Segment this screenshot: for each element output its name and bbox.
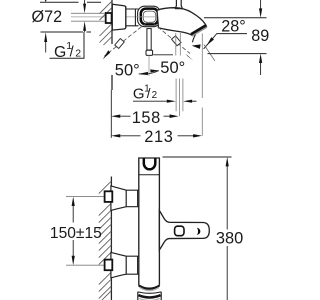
- handle rim (thick): [141, 9, 158, 25]
- wall line (side view): [111, 0, 113, 90]
- spout outlet extension lines (upper): [176, 33, 181, 56]
- dimension 380 line upper: [226, 157, 229, 166]
- svg-text:/: /: [147, 86, 151, 101]
- label G1/2 box: [50, 32, 85, 58]
- lever hole: [175, 226, 184, 236]
- body seam line: [139, 174, 160, 176]
- 150±15 upper extension line: [66, 196, 105, 198]
- spout outlet extension lines (lower): [176, 79, 183, 117]
- dimension G1/2 upper arrow: [84, 0, 86, 5]
- lever end cap: [146, 50, 153, 55]
- G1/2 wall nipple: [106, 13, 112, 23]
- phantom lever line right (50° tilt): [153, 23, 190, 54]
- handle inner face: [143, 11, 156, 22]
- dimension 150±15 lower arrow: [72, 240, 74, 257]
- 150±15 lower extension line: [66, 264, 105, 266]
- dimension Ø72 top extension line: [40, 1, 101, 3]
- lever shaft: [147, 29, 151, 50]
- hand shower hook (U notch): [144, 158, 156, 169]
- lower union nipple: [105, 260, 113, 271]
- swing arc arrowhead right: [150, 69, 159, 72]
- lever crescent mark: [196, 228, 200, 235]
- G1/2 leader right arrow: [183, 100, 192, 103]
- spout collar shading: [139, 287, 159, 290]
- upper union cylinder: [126, 190, 139, 207]
- phantom lever knob right: [172, 36, 182, 46]
- svg-text:89: 89: [251, 27, 269, 45]
- svg-text:G: G: [133, 85, 145, 102]
- svg-text:2: 2: [75, 48, 81, 60]
- phantom lever line left (50° tilt): [105, 23, 147, 56]
- svg-text:380: 380: [216, 229, 243, 247]
- 28° leader arrowhead: [207, 37, 214, 45]
- water flow arc: [192, 35, 195, 43]
- escutcheon cone (side view): [112, 4, 126, 30]
- escutcheon rim: [125, 6, 127, 28]
- upper union escutcheon cone: [111, 186, 126, 211]
- 380 top extension line: [163, 156, 232, 158]
- svg-text:158: 158: [132, 109, 161, 127]
- spout cup lower shading: [139, 298, 160, 300]
- spout cup sides: [138, 292, 161, 300]
- spout body: [157, 8, 206, 36]
- G1/2 leader left arrow: [133, 100, 167, 102]
- cartridge cylinder: [126, 9, 139, 26]
- wall face extension line: [110, 90, 112, 138]
- wall line (front view): [110, 177, 112, 300]
- svg-text:G: G: [54, 44, 66, 61]
- svg-text:50°: 50°: [115, 62, 140, 80]
- lever base line: [153, 54, 173, 56]
- water flow arrowhead: [192, 44, 201, 49]
- svg-text:2: 2: [152, 90, 157, 101]
- mixer body column: [139, 158, 160, 286]
- handle centerline: [137, 16, 160, 18]
- 28° leader line: [204, 34, 247, 49]
- spout cup dark arc: [139, 295, 161, 297]
- pipe centerline: [71, 16, 137, 18]
- upper union nipple: [105, 191, 113, 202]
- svg-text:213: 213: [144, 128, 173, 146]
- handle outer square: [138, 6, 161, 27]
- swing arc 50/50: [139, 71, 159, 75]
- diverter knob on spout: [175, 0, 182, 9]
- lever centerline: [148, 56, 150, 76]
- dimension 89 upper arrow: [260, 0, 262, 9]
- wall hatching (front view): [99, 181, 112, 300]
- svg-text:28°: 28°: [221, 18, 245, 36]
- lever (front view): [159, 211, 209, 250]
- dimension 380 line lower: [226, 246, 228, 300]
- dimension 89 lower arrow: [259, 54, 262, 63]
- phantom arrow right: [186, 54, 194, 61]
- dimension G1/2 lower arrow: [83, 21, 86, 31]
- svg-text:50°: 50°: [160, 59, 185, 77]
- flow direction line: [204, 45, 215, 61]
- phantom arrow left: [103, 50, 111, 59]
- dimension 158: [111, 115, 120, 118]
- svg-text:Ø72: Ø72: [32, 8, 63, 26]
- spout collar arc (dark): [139, 286, 159, 289]
- lower union escutcheon cone: [111, 252, 126, 278]
- supply pipe lines: [71, 13, 105, 21]
- wall hatching (side view): [100, 1, 113, 45]
- dimension 213: [111, 134, 120, 137]
- spout cup top edge: [138, 292, 161, 293]
- lower union cylinder: [126, 256, 139, 274]
- dimension Ø72 bottom arrow: [44, 32, 47, 42]
- dimension Ø72 bottom extension line: [41, 31, 92, 33]
- dimension 150±15 upper arrow: [72, 197, 75, 206]
- dimension 89 top line: [204, 17, 267, 19]
- swing arc arrowhead left: [139, 72, 148, 75]
- dimension 89 bottom line: [208, 53, 267, 55]
- dimension Ø72 top arrow (cut by image edge): [45, 0, 47, 2]
- svg-text:150±15: 150±15: [50, 225, 102, 242]
- spout outlet lip shading: [192, 27, 207, 36]
- spout face extension line: [201, 33, 203, 135]
- spout outlet lip (dark): [190, 24, 206, 35]
- phantom lever knob left: [115, 39, 125, 49]
